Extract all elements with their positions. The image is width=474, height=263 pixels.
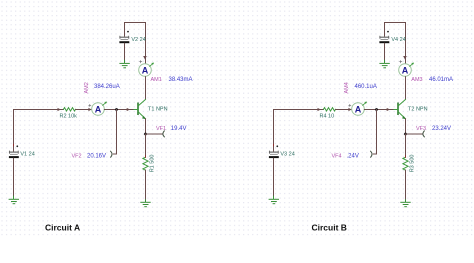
wire junction to R1 — [145, 134, 147, 157]
wire base junction down B — [373, 110, 376, 155]
label V2 24 — [131, 37, 145, 43]
svg-text:VF1: VF1 — [156, 126, 166, 132]
wire base junction down — [113, 110, 116, 155]
resistor R1 500 — [143, 156, 148, 172]
svg-text:R1 500: R1 500 — [150, 155, 156, 173]
svg-text:AM1: AM1 — [151, 77, 162, 83]
svg-text:38.43mA: 38.43mA — [169, 77, 193, 83]
wire V3 to R4 — [274, 110, 324, 152]
wire R2 to AM2 — [76, 109, 92, 111]
svg-text:19.4V: 19.4V — [171, 126, 187, 132]
battery V4 — [380, 31, 389, 61]
svg-text:VF2: VF2 — [72, 154, 82, 160]
svg-text:A: A — [142, 65, 149, 75]
value 384.26uA — [94, 84, 120, 90]
svg-text:A: A — [95, 104, 102, 114]
svg-text:V1 24: V1 24 — [20, 151, 34, 157]
svg-text:460.1uA: 460.1uA — [355, 84, 377, 90]
battery V2 — [120, 31, 129, 61]
wire emitter down — [145, 119, 147, 134]
resistor R2 10k — [64, 108, 76, 111]
resistor R4 10 — [324, 108, 336, 111]
value 20.16V — [87, 154, 106, 160]
svg-text:V4 24: V4 24 — [391, 37, 405, 43]
ground below V3 — [269, 196, 278, 203]
label R3 500 — [410, 155, 416, 173]
wire AM4 to base — [364, 109, 393, 111]
wire emitter down — [405, 119, 407, 134]
arrow into AM1 — [143, 56, 147, 60]
transistor T1 NPN — [133, 99, 146, 119]
probe VF4 — [371, 151, 372, 157]
wire AM2 to base — [104, 109, 133, 111]
label T1 NPN — [148, 107, 168, 113]
wire V1 to R2 — [14, 110, 64, 152]
arrow on base wire B — [318, 108, 321, 111]
ground below R1 — [141, 200, 150, 207]
label R1 500 — [150, 155, 156, 173]
value 38.43mA — [169, 77, 193, 83]
label R4 10 — [320, 113, 335, 119]
svg-text:V2 24: V2 24 — [131, 37, 145, 43]
svg-text:AM2: AM2 — [84, 82, 90, 93]
ammeter AM1 — [139, 61, 154, 77]
ground below V4 — [380, 60, 389, 68]
wire AM3 to collector — [405, 77, 407, 100]
svg-text:Circuit B: Circuit B — [312, 223, 347, 233]
label VF3 — [416, 126, 426, 132]
arrow on base wire — [58, 108, 61, 111]
ammeter AM3 — [399, 61, 414, 77]
svg-text:Circuit A: Circuit A — [45, 223, 80, 233]
svg-text:R2 10k: R2 10k — [60, 113, 78, 119]
ground below R3 — [401, 200, 410, 207]
probe VF2 — [111, 151, 112, 157]
value 23.24V — [432, 126, 451, 132]
battery V3 — [269, 144, 278, 196]
value 19.4V — [171, 126, 187, 132]
svg-text:R3 500: R3 500 — [410, 155, 416, 173]
arrow into base — [127, 108, 130, 111]
label AM2 (rotated) — [84, 82, 90, 93]
svg-text:23.24V: 23.24V — [432, 126, 451, 132]
svg-text:AM4: AM4 — [344, 82, 350, 93]
arrow into AM4 — [348, 108, 351, 111]
svg-text:A: A — [402, 65, 409, 75]
label V1 24 — [20, 151, 34, 157]
wire R1 to ground — [145, 170, 147, 200]
value 460.1uA — [355, 84, 377, 90]
wire V2-top to AM1 — [125, 23, 146, 64]
node base junction — [115, 108, 118, 111]
svg-text:A: A — [355, 104, 362, 114]
label T2 NPN — [408, 107, 428, 113]
wire V4-top to AM3 — [385, 23, 406, 64]
label V4 24 — [391, 37, 405, 43]
node emitter junction — [404, 133, 407, 136]
value 46.01mA — [429, 77, 453, 83]
node emitter junction — [144, 133, 147, 136]
svg-text:R4 10: R4 10 — [320, 113, 335, 119]
label R2 10k — [60, 113, 78, 119]
label V3 24 — [280, 151, 294, 157]
label AM4 (rotated) — [344, 82, 350, 93]
svg-text:VF3: VF3 — [416, 126, 426, 132]
arrow into AM3 — [403, 56, 407, 60]
probe VF3 stub — [406, 131, 425, 137]
label VF4 — [332, 154, 342, 160]
arrow into base B — [387, 108, 390, 111]
svg-text:.24V: .24V — [347, 154, 359, 160]
svg-text:VF4: VF4 — [332, 154, 342, 160]
resistor R3 500 — [403, 156, 408, 172]
label VF1 — [156, 126, 166, 132]
arrow into AM2 — [88, 108, 91, 111]
label AM3 — [411, 77, 422, 83]
svg-text:T1 NPN: T1 NPN — [148, 107, 168, 113]
node base junction B — [375, 108, 378, 111]
wire AM1 to collector — [145, 77, 147, 100]
probe VF1 stub — [146, 131, 165, 137]
label VF2 — [72, 154, 82, 160]
svg-text:AM3: AM3 — [411, 77, 422, 83]
ground below V2 — [120, 60, 129, 68]
svg-text:20.16V: 20.16V — [87, 154, 106, 160]
caption Circuit B — [312, 223, 347, 233]
svg-text:384.26uA: 384.26uA — [94, 84, 120, 90]
svg-text:T2 NPN: T2 NPN — [408, 107, 428, 113]
battery V1 — [9, 144, 18, 196]
transistor T2 NPN — [393, 99, 406, 119]
label AM1 — [151, 77, 162, 83]
ground below V1 — [9, 196, 18, 203]
ammeter AM2 — [89, 102, 107, 116]
ammeter AM4 — [349, 102, 367, 116]
svg-text:V3 24: V3 24 — [280, 151, 294, 157]
wire junction to R3 — [405, 134, 407, 157]
svg-text:46.01mA: 46.01mA — [429, 77, 453, 83]
wire R4 to AM4 — [336, 109, 352, 111]
wire R3 to ground — [405, 170, 407, 200]
value .24V — [347, 154, 359, 160]
caption Circuit A — [45, 223, 80, 233]
